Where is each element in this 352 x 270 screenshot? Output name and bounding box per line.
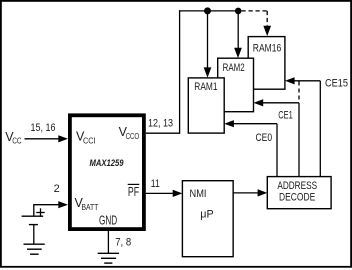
svg-text:BATT: BATT — [82, 202, 99, 212]
address decoder U3 box — [267, 177, 331, 209]
pin 7, 8 label — [115, 236, 131, 248]
pin label GND — [99, 214, 117, 228]
svg-text:μP: μP — [200, 209, 213, 221]
svg-text:ADDRESS: ADDRESS — [277, 180, 317, 192]
net CE15 label — [325, 78, 348, 90]
svg-text:CE1: CE1 — [278, 110, 292, 122]
svg-text:CCI: CCI — [83, 135, 96, 145]
svg-text:CC: CC — [12, 135, 21, 145]
RAM16 box — [248, 37, 285, 90]
pin label VCCI — [76, 130, 96, 146]
net CE15 wire with arrow into RAM16 — [285, 77, 320, 177]
wire dashed CE continuation — [298, 82, 300, 102]
wire GND pin to ground — [107, 231, 109, 254]
wire PF to NMI with arrow — [146, 190, 183, 197]
svg-text:2: 2 — [54, 183, 60, 195]
svg-text:RAM2: RAM2 — [223, 62, 245, 74]
junction dot A — [204, 7, 211, 14]
wire supply drop into RAM1 — [204, 11, 212, 78]
net VCC label — [5, 130, 21, 145]
wire battery to ground — [33, 225, 35, 244]
IC U1 MAX1259 body — [70, 115, 144, 229]
svg-text:PF: PF — [128, 185, 139, 199]
wire battery to VBATT with arrow — [34, 201, 68, 216]
svg-text:CE15: CE15 — [325, 78, 348, 90]
svg-text:11: 11 — [151, 178, 160, 190]
ground (battery) — [24, 244, 45, 254]
net CE1 wire with arrow into RAM2 — [254, 99, 300, 177]
wire VCC to VCCI with arrow — [25, 135, 69, 142]
svg-text:RAM16: RAM16 — [253, 42, 281, 54]
junction dot B — [235, 8, 242, 15]
wire NMI to address decode with arrow — [233, 189, 267, 196]
svg-text:7, 8: 7, 8 — [115, 236, 131, 248]
wire VCCO output to bus riser — [146, 10, 180, 134]
ground (GND pin) — [98, 253, 119, 263]
svg-text:RAM1: RAM1 — [194, 81, 217, 93]
net CE0 wire with arrow into RAM1 — [224, 120, 277, 177]
svg-text:MAX1259: MAX1259 — [89, 158, 124, 169]
wire dashed bus continuation to RAM16 — [242, 11, 272, 36]
svg-text:CCO: CCO — [126, 131, 140, 141]
pin label VBATT — [75, 196, 99, 212]
microprocessor U2 box — [182, 181, 233, 257]
pin 12, 13 label — [148, 118, 173, 130]
wire supply drop into RAM2 — [234, 11, 242, 58]
svg-text:GND: GND — [99, 214, 117, 228]
pin 15, 16 label — [31, 122, 56, 134]
RAM1 box — [188, 78, 224, 133]
value label MAX1259 — [89, 158, 124, 169]
svg-text:12, 13: 12, 13 — [148, 118, 173, 130]
wire top supply bus (solid) — [179, 10, 238, 12]
battery B1 — [22, 208, 45, 224]
svg-text:CE0: CE0 — [256, 132, 273, 144]
svg-text:NMI: NMI — [190, 188, 207, 200]
svg-text:15, 16: 15, 16 — [31, 122, 56, 134]
svg-text:DECODE: DECODE — [279, 192, 315, 204]
net CE1 label — [278, 110, 292, 122]
pin 2 label — [54, 183, 60, 195]
pin label VCCO — [119, 125, 140, 141]
net CE0 label — [256, 132, 273, 144]
RAM2 box — [218, 58, 254, 111]
pin label PF with overline — [128, 184, 140, 199]
pin 11 label — [151, 178, 160, 190]
